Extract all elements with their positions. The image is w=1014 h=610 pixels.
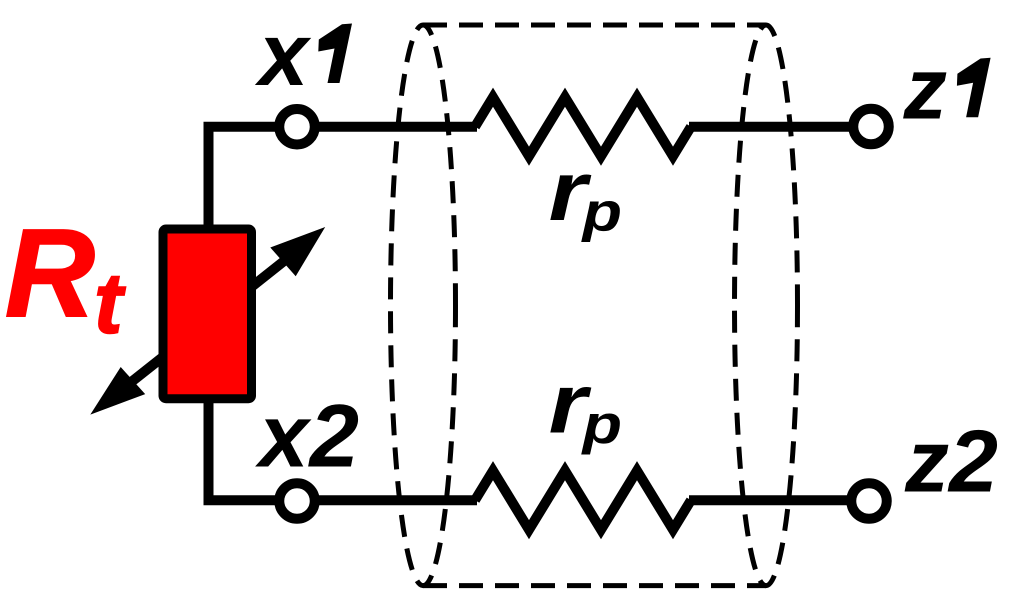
arrowhead (upper right)	[270, 227, 325, 276]
dashed enclosure (cable): left end ellipse	[391, 25, 456, 586]
terminal z2	[851, 483, 887, 519]
svg-text:Rt: Rt	[5, 204, 126, 352]
wire: Rt top to node x1 (L-shape)	[209, 127, 298, 232]
svg-text:x2: x2	[255, 386, 359, 486]
wire: resistor rp top to terminal z1	[689, 122, 860, 132]
svg-text:rp: rp	[549, 144, 622, 242]
resistor Rt body (red rectangle)	[163, 229, 252, 399]
svg-text:z: z	[903, 40, 948, 137]
label rp (bottom resistor)	[549, 357, 622, 455]
svg-text:z2: z2	[904, 412, 998, 511]
dashed enclosure (cable): bottom boundary line	[423, 583, 766, 588]
dashed enclosure (cable): right end ellipse	[735, 25, 798, 586]
resistor rp (top) zigzag	[475, 97, 691, 156]
resistor rp (bottom) zigzag	[475, 471, 691, 530]
svg-text:rp: rp	[549, 357, 622, 455]
terminal z1	[853, 109, 889, 145]
wire: x1 to resistor rp top	[297, 122, 477, 132]
label rp (top resistor)	[549, 144, 622, 242]
wire: resistor rp bottom to terminal z2	[689, 495, 858, 505]
terminal x1	[279, 109, 315, 145]
terminal x2	[279, 483, 315, 519]
wire: x2 to resistor rp bottom	[297, 495, 477, 505]
dashed enclosure (cable): top boundary line	[423, 23, 766, 28]
wire: Rt bottom to node x2 (L-shape)	[209, 398, 298, 500]
arrowhead (lower left)	[90, 367, 145, 415]
svg-text:x: x	[255, 4, 312, 104]
variable-resistor arrow shaft through Rt	[130, 260, 286, 384]
